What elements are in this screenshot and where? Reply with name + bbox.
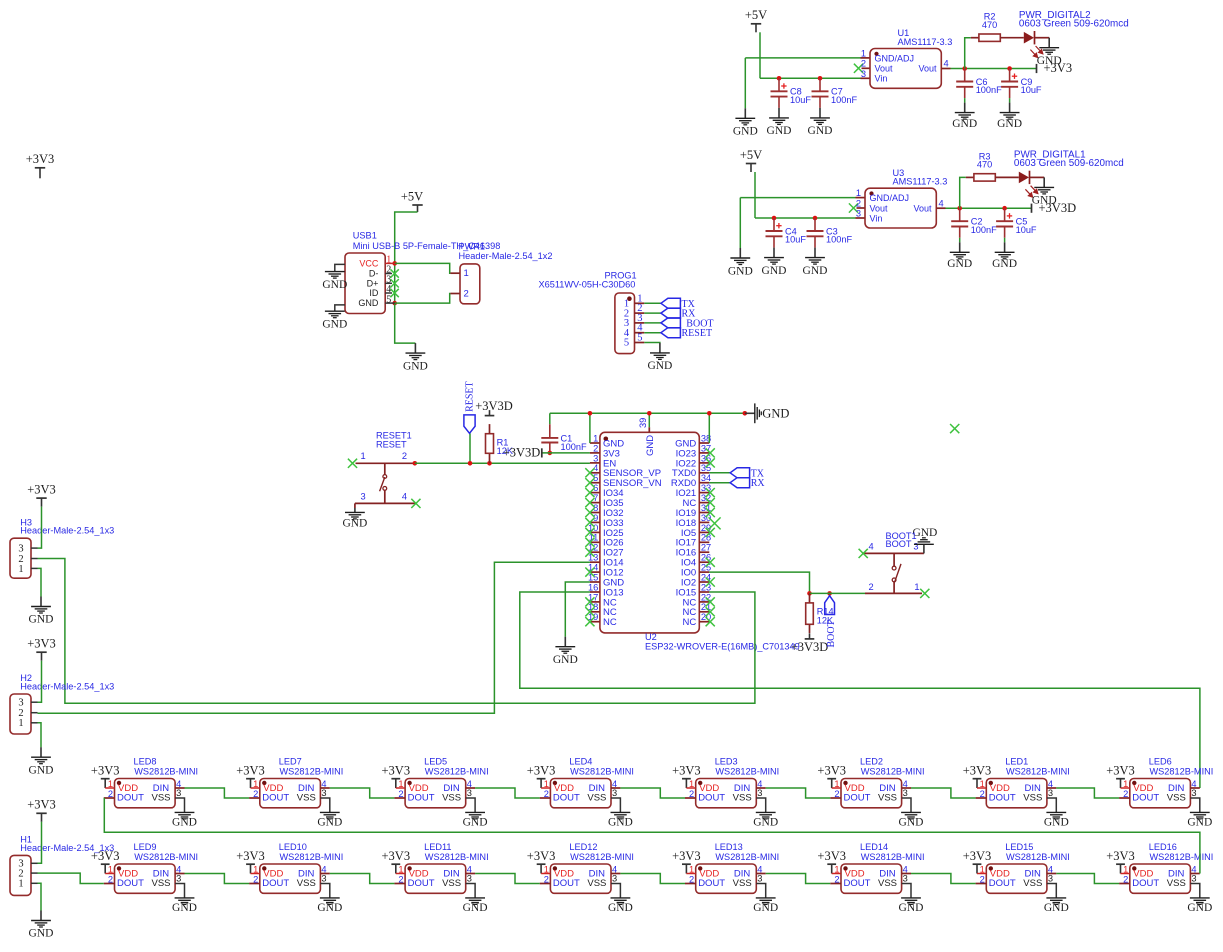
svg-text:1: 1 xyxy=(108,864,113,874)
svg-text:GND: GND xyxy=(317,902,342,914)
svg-text:+3V3: +3V3 xyxy=(27,798,56,812)
svg-text:3: 3 xyxy=(1191,788,1196,798)
svg-text:GND: GND xyxy=(753,816,778,828)
svg-text:GND: GND xyxy=(997,118,1022,130)
svg-text:DOUT: DOUT xyxy=(408,792,435,803)
svg-text:DOUT: DOUT xyxy=(698,792,725,803)
svg-text:DOUT: DOUT xyxy=(262,792,289,803)
svg-text:BOOT: BOOT xyxy=(826,620,837,647)
svg-text:Vout: Vout xyxy=(870,203,889,213)
svg-text:GND: GND xyxy=(1044,816,1069,828)
svg-text:AMS1117-3.3: AMS1117-3.3 xyxy=(893,177,948,187)
svg-text:1: 1 xyxy=(18,718,23,729)
svg-text:0603 Green 509-620mcd: 0603 Green 509-620mcd xyxy=(1019,18,1129,29)
svg-text:RESET: RESET xyxy=(465,381,476,412)
svg-text:+3V3: +3V3 xyxy=(1106,763,1135,777)
svg-text:LED2: LED2 xyxy=(860,756,883,766)
svg-text:WS2812B-MINI: WS2812B-MINI xyxy=(280,766,344,776)
svg-text:3: 3 xyxy=(593,453,598,463)
svg-text:GND: GND xyxy=(647,360,672,372)
svg-text:GND: GND xyxy=(899,816,924,828)
svg-text:D+: D+ xyxy=(367,278,379,288)
svg-text:VSS: VSS xyxy=(1023,792,1042,803)
svg-text:2: 2 xyxy=(1123,789,1128,799)
svg-text:WS2812B-MINI: WS2812B-MINI xyxy=(861,852,925,862)
svg-text:25: 25 xyxy=(701,563,711,573)
svg-text:GND: GND xyxy=(342,518,367,530)
svg-text:2: 2 xyxy=(593,443,598,453)
svg-text:ESP32-WROVER-E(16MB)_C701349: ESP32-WROVER-E(16MB)_C701349 xyxy=(645,642,800,652)
svg-text:2: 2 xyxy=(108,789,113,799)
svg-text:3: 3 xyxy=(467,873,472,883)
svg-text:LED1: LED1 xyxy=(1005,756,1028,766)
svg-text:+3V3: +3V3 xyxy=(382,849,411,863)
svg-text:3: 3 xyxy=(861,69,866,79)
svg-text:+3V3: +3V3 xyxy=(236,849,265,863)
svg-text:3: 3 xyxy=(1048,873,1053,883)
svg-text:GND: GND xyxy=(172,902,197,914)
svg-text:VSS: VSS xyxy=(878,792,897,803)
svg-text:GND: GND xyxy=(463,902,488,914)
svg-text:GND: GND xyxy=(1044,902,1069,914)
svg-text:WS2812B-MINI: WS2812B-MINI xyxy=(134,766,198,776)
svg-text:+3V3: +3V3 xyxy=(27,637,56,651)
svg-text:4: 4 xyxy=(939,198,944,208)
svg-text:LED9: LED9 xyxy=(134,842,157,852)
svg-text:DOUT: DOUT xyxy=(553,878,580,889)
svg-text:1: 1 xyxy=(108,779,113,789)
svg-text:ID: ID xyxy=(369,288,379,298)
svg-text:LED3: LED3 xyxy=(715,756,738,766)
svg-text:+3V3: +3V3 xyxy=(26,152,55,166)
svg-text:1: 1 xyxy=(834,779,839,789)
svg-text:+3V3D: +3V3D xyxy=(503,446,541,460)
svg-text:WS2812B-MINI: WS2812B-MINI xyxy=(425,852,489,862)
svg-text:LED13: LED13 xyxy=(715,842,743,852)
svg-text:VSS: VSS xyxy=(297,792,316,803)
svg-text:1: 1 xyxy=(914,582,919,592)
svg-text:VSS: VSS xyxy=(442,792,461,803)
svg-text:NC: NC xyxy=(603,617,617,628)
svg-text:Header-Male-2.54_1x3: Header-Male-2.54_1x3 xyxy=(20,681,114,691)
svg-text:2: 2 xyxy=(861,59,866,69)
svg-text:10uF: 10uF xyxy=(1016,225,1037,235)
svg-text:1: 1 xyxy=(1123,779,1128,789)
svg-text:GND: GND xyxy=(322,319,347,331)
svg-text:GND/ADJ: GND/ADJ xyxy=(875,53,915,63)
svg-text:GND: GND xyxy=(172,816,197,828)
svg-text:1: 1 xyxy=(980,779,985,789)
svg-text:3: 3 xyxy=(856,209,861,219)
svg-text:DOUT: DOUT xyxy=(989,878,1016,889)
svg-text:+3V3: +3V3 xyxy=(672,763,701,777)
svg-text:DOUT: DOUT xyxy=(1132,878,1159,889)
svg-text:GND: GND xyxy=(1187,902,1212,914)
svg-text:+3V3: +3V3 xyxy=(1106,849,1135,863)
svg-text:GND: GND xyxy=(322,279,347,291)
svg-text:GND: GND xyxy=(803,265,828,277)
svg-text:LED16: LED16 xyxy=(1149,842,1177,852)
svg-text:X6511WV-05H-C30D60: X6511WV-05H-C30D60 xyxy=(539,280,636,290)
svg-text:GND: GND xyxy=(29,764,54,776)
svg-text:GND/ADJ: GND/ADJ xyxy=(870,193,910,203)
svg-text:VSS: VSS xyxy=(1167,878,1186,889)
svg-text:WS2812B-MINI: WS2812B-MINI xyxy=(1006,766,1070,776)
svg-text:GND: GND xyxy=(1187,816,1212,828)
svg-text:PWR1: PWR1 xyxy=(459,242,486,252)
svg-text:U2: U2 xyxy=(645,632,657,642)
svg-text:GND: GND xyxy=(733,126,758,138)
svg-text:39: 39 xyxy=(638,418,648,428)
svg-text:LED12: LED12 xyxy=(569,842,597,852)
svg-text:VSS: VSS xyxy=(1167,792,1186,803)
svg-text:470: 470 xyxy=(977,160,992,170)
svg-text:GND: GND xyxy=(358,298,379,308)
svg-text:100nF: 100nF xyxy=(976,85,1002,95)
svg-text:LED15: LED15 xyxy=(1005,842,1033,852)
svg-text:GND: GND xyxy=(728,265,753,277)
svg-text:3: 3 xyxy=(612,788,617,798)
svg-text:3: 3 xyxy=(1048,788,1053,798)
svg-text:3: 3 xyxy=(176,873,181,883)
svg-text:LED4: LED4 xyxy=(569,756,592,766)
svg-text:1: 1 xyxy=(18,564,23,575)
svg-text:2: 2 xyxy=(402,451,407,461)
svg-text:GND: GND xyxy=(899,902,924,914)
svg-text:AMS1117-3.3: AMS1117-3.3 xyxy=(898,37,953,47)
svg-text:4: 4 xyxy=(869,542,874,552)
svg-text:GND: GND xyxy=(403,360,428,372)
svg-text:DOUT: DOUT xyxy=(553,792,580,803)
svg-text:3: 3 xyxy=(903,788,908,798)
svg-text:5: 5 xyxy=(624,338,629,349)
svg-text:10uF: 10uF xyxy=(1021,85,1042,95)
svg-text:10uF: 10uF xyxy=(790,95,811,105)
svg-text:2: 2 xyxy=(544,789,549,799)
svg-text:VSS: VSS xyxy=(1023,878,1042,889)
svg-text:15: 15 xyxy=(588,572,598,582)
svg-text:35: 35 xyxy=(701,463,711,473)
svg-text:+5V: +5V xyxy=(740,148,762,162)
svg-text:DOUT: DOUT xyxy=(698,878,725,889)
svg-text:LED6: LED6 xyxy=(1149,756,1172,766)
svg-text:1: 1 xyxy=(464,268,469,279)
svg-text:Vin: Vin xyxy=(870,213,883,223)
svg-text:2: 2 xyxy=(253,789,258,799)
svg-text:LED11: LED11 xyxy=(424,842,451,852)
svg-text:0603 Green 509-620mcd: 0603 Green 509-620mcd xyxy=(1014,158,1124,169)
svg-text:WS2812B-MINI: WS2812B-MINI xyxy=(1006,852,1070,862)
svg-text:+5V: +5V xyxy=(401,189,423,203)
svg-text:1: 1 xyxy=(689,779,694,789)
svg-text:+3V3: +3V3 xyxy=(236,763,265,777)
svg-text:VSS: VSS xyxy=(587,878,606,889)
svg-text:2: 2 xyxy=(544,875,549,885)
svg-text:GND: GND xyxy=(753,902,778,914)
svg-text:3: 3 xyxy=(612,873,617,883)
svg-text:1: 1 xyxy=(253,864,258,874)
svg-text:28: 28 xyxy=(701,533,711,543)
svg-text:Vout: Vout xyxy=(875,64,894,74)
svg-text:3: 3 xyxy=(176,788,181,798)
svg-text:Vout: Vout xyxy=(918,64,937,74)
svg-text:+3V3: +3V3 xyxy=(963,763,992,777)
svg-text:WS2812B-MINI: WS2812B-MINI xyxy=(715,766,779,776)
svg-text:D-: D- xyxy=(369,269,379,279)
svg-text:10uF: 10uF xyxy=(785,235,806,245)
svg-text:RX: RX xyxy=(751,478,766,489)
svg-text:23: 23 xyxy=(701,582,711,592)
svg-text:USB1: USB1 xyxy=(353,231,377,241)
svg-text:+3V3: +3V3 xyxy=(527,849,556,863)
svg-text:3: 3 xyxy=(1191,873,1196,883)
svg-text:GND: GND xyxy=(808,125,833,137)
svg-text:2: 2 xyxy=(980,789,985,799)
svg-text:VSS: VSS xyxy=(878,878,897,889)
svg-text:1: 1 xyxy=(593,433,598,443)
svg-text:DOUT: DOUT xyxy=(117,878,144,889)
svg-text:+3V3: +3V3 xyxy=(1044,61,1073,75)
svg-text:+3V3D: +3V3D xyxy=(1039,201,1077,215)
svg-text:1: 1 xyxy=(253,779,258,789)
svg-text:2: 2 xyxy=(398,875,403,885)
svg-text:VSS: VSS xyxy=(297,878,316,889)
svg-text:2: 2 xyxy=(464,289,469,300)
svg-text:3: 3 xyxy=(18,698,23,709)
svg-text:+3V3: +3V3 xyxy=(817,849,846,863)
svg-text:GND: GND xyxy=(608,902,633,914)
svg-text:2: 2 xyxy=(108,875,113,885)
svg-text:GND: GND xyxy=(29,928,54,940)
svg-text:1: 1 xyxy=(398,779,403,789)
svg-text:2: 2 xyxy=(834,789,839,799)
svg-text:BOOT: BOOT xyxy=(886,539,912,549)
svg-text:WS2812B-MINI: WS2812B-MINI xyxy=(134,852,198,862)
svg-text:1: 1 xyxy=(1123,864,1128,874)
svg-text:GND: GND xyxy=(762,265,787,277)
svg-text:LED14: LED14 xyxy=(860,842,888,852)
svg-text:GND: GND xyxy=(645,435,656,456)
svg-text:GND: GND xyxy=(947,258,972,270)
svg-text:1: 1 xyxy=(398,864,403,874)
svg-text:3: 3 xyxy=(321,788,326,798)
svg-text:2: 2 xyxy=(689,875,694,885)
svg-text:GND: GND xyxy=(952,118,977,130)
svg-text:RESET: RESET xyxy=(376,440,407,450)
svg-text:LED10: LED10 xyxy=(279,842,307,852)
svg-text:1: 1 xyxy=(689,864,694,874)
svg-text:GND: GND xyxy=(767,125,792,137)
svg-text:DOUT: DOUT xyxy=(989,792,1016,803)
svg-text:Header-Male-2.54_1x3: Header-Male-2.54_1x3 xyxy=(20,526,114,536)
svg-text:3: 3 xyxy=(757,788,762,798)
svg-text:3: 3 xyxy=(321,873,326,883)
svg-text:3: 3 xyxy=(757,873,762,883)
svg-text:DOUT: DOUT xyxy=(844,878,871,889)
svg-text:+3V3: +3V3 xyxy=(382,763,411,777)
svg-text:13: 13 xyxy=(588,553,598,563)
svg-text:GND: GND xyxy=(608,816,633,828)
svg-text:WS2812B-MINI: WS2812B-MINI xyxy=(425,766,489,776)
svg-text:GND: GND xyxy=(29,614,54,626)
svg-text:100nF: 100nF xyxy=(561,442,587,452)
svg-text:2: 2 xyxy=(689,789,694,799)
svg-text:+3V3: +3V3 xyxy=(91,849,120,863)
svg-text:100nF: 100nF xyxy=(826,235,852,245)
svg-text:GND: GND xyxy=(762,406,789,420)
svg-text:100nF: 100nF xyxy=(971,225,997,235)
svg-text:34: 34 xyxy=(701,473,711,483)
svg-text:+3V3: +3V3 xyxy=(527,763,556,777)
svg-text:1: 1 xyxy=(980,864,985,874)
svg-text:3: 3 xyxy=(903,873,908,883)
svg-text:+3V3D: +3V3D xyxy=(791,640,829,654)
svg-text:LED7: LED7 xyxy=(279,756,302,766)
svg-text:1: 1 xyxy=(361,451,366,461)
svg-text:WS2812B-MINI: WS2812B-MINI xyxy=(570,852,634,862)
svg-text:+3V3: +3V3 xyxy=(817,763,846,777)
svg-text:LED8: LED8 xyxy=(134,756,157,766)
svg-text:WS2812B-MINI: WS2812B-MINI xyxy=(861,766,925,776)
svg-text:+3V3: +3V3 xyxy=(963,849,992,863)
svg-text:1: 1 xyxy=(834,864,839,874)
svg-text:GND: GND xyxy=(317,816,342,828)
svg-text:GND: GND xyxy=(463,816,488,828)
svg-text:4: 4 xyxy=(944,59,949,69)
svg-text:2: 2 xyxy=(398,789,403,799)
svg-text:Vout: Vout xyxy=(913,203,932,213)
svg-text:GND: GND xyxy=(553,654,578,666)
svg-text:+3V3D: +3V3D xyxy=(475,399,513,413)
svg-text:3: 3 xyxy=(18,544,23,555)
svg-text:1: 1 xyxy=(544,864,549,874)
svg-text:DOUT: DOUT xyxy=(844,792,871,803)
svg-text:NC: NC xyxy=(682,617,696,628)
svg-text:470: 470 xyxy=(982,20,997,30)
svg-text:Header-Male-2.54_1x2: Header-Male-2.54_1x2 xyxy=(459,251,553,261)
svg-text:Vin: Vin xyxy=(875,74,888,84)
svg-text:GND: GND xyxy=(992,258,1017,270)
svg-text:1: 1 xyxy=(18,879,23,890)
svg-text:27: 27 xyxy=(701,543,711,553)
svg-text:+3V3: +3V3 xyxy=(27,483,56,497)
svg-text:VSS: VSS xyxy=(733,878,752,889)
svg-text:3: 3 xyxy=(913,542,918,552)
svg-text:2: 2 xyxy=(856,198,861,208)
svg-text:2: 2 xyxy=(1123,875,1128,885)
svg-text:VSS: VSS xyxy=(733,792,752,803)
svg-text:3: 3 xyxy=(467,788,472,798)
svg-text:3: 3 xyxy=(361,491,366,501)
svg-text:DOUT: DOUT xyxy=(1132,792,1159,803)
svg-text:1: 1 xyxy=(544,779,549,789)
svg-text:WS2812B-MINI: WS2812B-MINI xyxy=(280,852,344,862)
svg-text:DOUT: DOUT xyxy=(117,792,144,803)
svg-text:DOUT: DOUT xyxy=(262,878,289,889)
svg-text:RESET: RESET xyxy=(682,328,713,339)
svg-text:VCC: VCC xyxy=(359,258,379,268)
svg-text:WS2812B-MINI: WS2812B-MINI xyxy=(715,852,779,862)
svg-text:2: 2 xyxy=(253,875,258,885)
svg-text:16: 16 xyxy=(588,582,598,592)
svg-text:WS2812B-MINI: WS2812B-MINI xyxy=(1150,766,1214,776)
svg-text:WS2812B-MINI: WS2812B-MINI xyxy=(1150,852,1214,862)
svg-text:2: 2 xyxy=(869,582,874,592)
svg-text:DOUT: DOUT xyxy=(408,878,435,889)
svg-text:100nF: 100nF xyxy=(831,95,857,105)
svg-text:WS2812B-MINI: WS2812B-MINI xyxy=(570,766,634,776)
svg-text:1: 1 xyxy=(856,188,861,198)
svg-text:VSS: VSS xyxy=(151,792,170,803)
svg-text:1: 1 xyxy=(861,48,866,58)
svg-text:+3V3: +3V3 xyxy=(672,849,701,863)
svg-text:VSS: VSS xyxy=(587,792,606,803)
svg-text:2: 2 xyxy=(834,875,839,885)
svg-text:2: 2 xyxy=(980,875,985,885)
svg-text:+3V3: +3V3 xyxy=(91,763,120,777)
svg-text:VSS: VSS xyxy=(151,878,170,889)
svg-text:4: 4 xyxy=(402,491,407,501)
svg-text:+5V: +5V xyxy=(745,8,767,22)
svg-text:LED5: LED5 xyxy=(424,756,447,766)
svg-text:VSS: VSS xyxy=(442,878,461,889)
